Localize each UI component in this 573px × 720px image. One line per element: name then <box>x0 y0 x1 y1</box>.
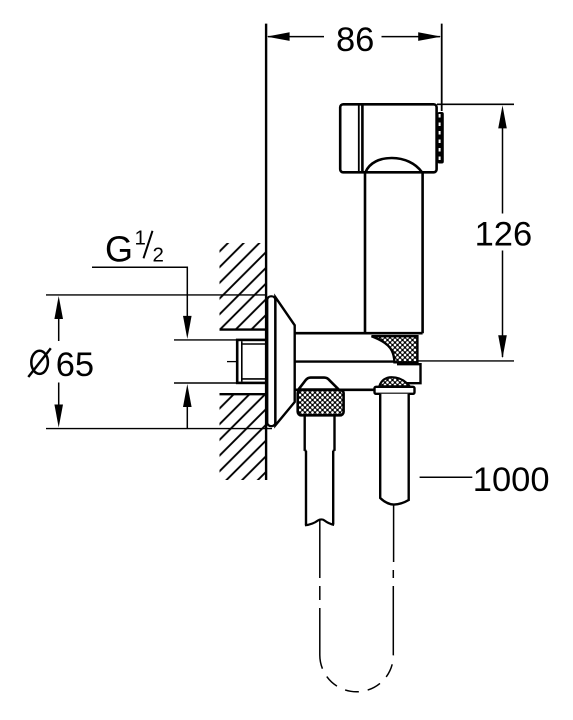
wall hatching lower band <box>220 395 266 480</box>
handle holder small knurled dome <box>379 377 409 386</box>
elbow body bottom edge <box>295 388 381 391</box>
spray head cap inner line thick <box>361 105 364 172</box>
G1/2 arrow up line <box>186 406 188 429</box>
handle arch junction <box>365 158 422 172</box>
svg-text:126: 126 <box>475 215 533 253</box>
dim 126 bottom extension line <box>418 360 515 362</box>
hose outlet knurled nut <box>298 390 344 416</box>
spray head cap inner line thin <box>358 105 360 172</box>
handle right edge <box>421 172 424 333</box>
wall hatching upper band <box>220 243 266 330</box>
dim 65 top extension line <box>46 294 267 296</box>
escutcheon back plate <box>267 296 275 426</box>
shower handle lower tube <box>380 394 409 505</box>
svg-text:1000: 1000 <box>473 461 550 499</box>
elbow body mid seam <box>295 360 400 362</box>
G 1/2 label <box>105 226 164 269</box>
svg-text:G: G <box>105 228 133 269</box>
dim 126 dimension line with arrows <box>498 105 507 358</box>
svg-text:65: 65 <box>56 346 94 384</box>
G1/2 nipple thread extension line top <box>174 339 239 341</box>
holder ring lower band <box>397 364 421 383</box>
hose outlet dome <box>298 378 338 390</box>
elbow body top edge <box>295 332 423 335</box>
G1/2 arrow down <box>183 316 192 339</box>
hose outlet tube <box>305 416 335 525</box>
dim 86 right extension line <box>441 24 443 111</box>
svg-text:2: 2 <box>153 243 164 266</box>
G1/2 leader line <box>92 267 187 317</box>
G1/2 threaded nipple <box>237 340 266 383</box>
handle holder flange <box>375 387 415 394</box>
hose left line <box>319 520 321 655</box>
spray face strip <box>437 112 444 164</box>
G1/2 arrow up <box>183 384 192 407</box>
dim 126 top extension line <box>437 103 514 105</box>
wall hole bottom edge <box>220 393 266 395</box>
hose U bottom arc <box>320 655 394 692</box>
wall surface line (also left extension of dim 86) <box>265 24 267 480</box>
dim 86 dimension line with arrows <box>267 32 442 41</box>
dim 65 text <box>28 348 51 377</box>
escutcheon cone <box>275 297 294 425</box>
spray head body <box>340 104 436 172</box>
hose tube break wave <box>305 519 334 525</box>
wall hole top edge <box>220 328 266 330</box>
knurled cone nut under handle <box>372 336 418 362</box>
dim 65 dimension line with arrows <box>54 296 63 428</box>
dim 1000 leader line <box>420 476 473 478</box>
centerline of wall union <box>227 361 285 363</box>
G1/2 nipple thread extension line bottom <box>174 382 239 384</box>
svg-text:86: 86 <box>336 21 374 59</box>
hose right line <box>392 506 394 656</box>
handle left edge <box>364 172 367 333</box>
svg-text:1: 1 <box>135 226 146 249</box>
dim 65 bottom extension line <box>46 428 272 430</box>
